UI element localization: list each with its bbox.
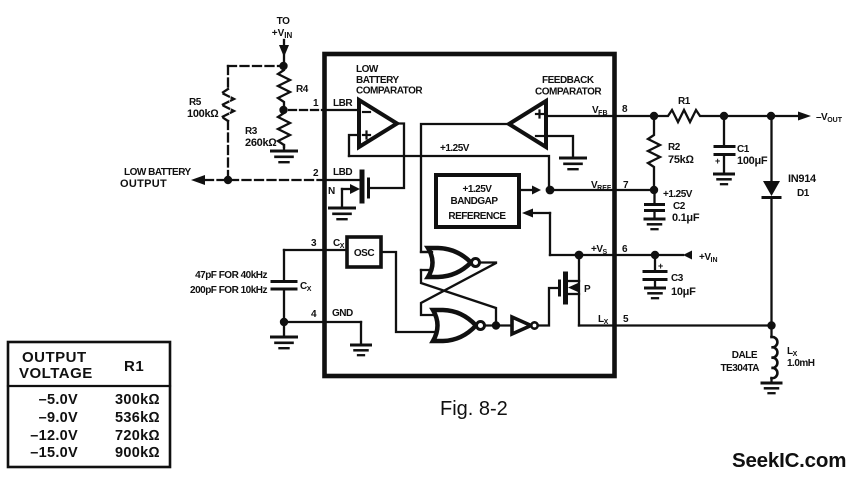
- svg-text:+VIN: +VIN: [272, 28, 293, 40]
- pin 4 label GND: [311, 308, 353, 320]
- svg-text:P: P: [584, 284, 591, 295]
- wire pin4 external and internal: [284, 321, 361, 323]
- svg-text:R1: R1: [124, 358, 144, 375]
- wire LX line from P-fet drain to inductor node: [579, 324, 772, 326]
- node latch output junction: [492, 321, 500, 329]
- wire pin2 to N-fet: [324, 179, 360, 181]
- inductor LX 1.0mH: [772, 326, 778, 384]
- label LX 1.0mH: [787, 346, 815, 369]
- wire VFB line from comparator to R1 node: [546, 115, 654, 117]
- svg-text:C3: C3: [671, 273, 684, 284]
- svg-text:BATTERY: BATTERY: [356, 75, 399, 86]
- svg-text:–5.0V: –5.0V: [39, 392, 78, 408]
- wire FB comparator minus input to ground: [546, 136, 573, 158]
- svg-text:COMPARATOR: COMPARATOR: [356, 86, 423, 97]
- node H junction (D1 top): [767, 112, 775, 120]
- capacitor CX external: [272, 250, 296, 322]
- label R2 75k: [668, 142, 694, 166]
- svg-text:+VIN: +VIN: [699, 252, 718, 264]
- svg-text:D1: D1: [797, 188, 810, 199]
- ground below C3: [646, 288, 665, 298]
- svg-text:8: 8: [622, 104, 628, 115]
- svg-text:SeekIC.com: SeekIC.com: [732, 449, 846, 472]
- svg-text:LOW BATTERY: LOW BATTERY: [124, 167, 192, 178]
- pin 7 label VREF: [591, 180, 629, 192]
- node A junction (+VIN / R4 / R5): [279, 62, 287, 70]
- svg-text:4: 4: [311, 309, 317, 320]
- svg-text:+1.25V: +1.25V: [440, 143, 470, 154]
- svg-text:+1.25V: +1.25V: [663, 189, 693, 200]
- label C1 100uF: [737, 144, 768, 167]
- internal ground of pin 4: [352, 322, 371, 355]
- ground below inductor: [762, 383, 781, 393]
- svg-text:LX: LX: [598, 314, 609, 326]
- svg-text:Fig. 8-2: Fig. 8-2: [440, 398, 508, 420]
- resistor R3: [278, 110, 290, 147]
- svg-text:COMPARATOR: COMPARATOR: [535, 87, 602, 98]
- pin 5 label LX: [598, 314, 629, 326]
- label R3 260k: [245, 126, 277, 149]
- capacitor C3: [644, 255, 666, 288]
- wire G1 output cross-couple to G2 top input: [421, 263, 496, 316]
- ground below C2: [645, 219, 664, 229]
- ground below CX: [272, 322, 297, 348]
- svg-text:LX: LX: [787, 346, 798, 358]
- wire bandgap output arrow to VREF node: [519, 186, 541, 195]
- oscillator box OSC: [347, 237, 381, 267]
- label +1.25V C2 0.1uF: [663, 189, 700, 224]
- svg-text:REFERENCE: REFERENCE: [448, 211, 506, 222]
- wire pin3 to OSC: [284, 249, 347, 251]
- label LOW BATTERY OUTPUT: [120, 167, 192, 190]
- node F junction (VREF / R2 / C2): [650, 186, 658, 194]
- wire pin1 to comparator minus input: [324, 109, 359, 111]
- label FEEDBACK COMPARATOR: [535, 75, 602, 98]
- capacitor C2: [646, 190, 664, 219]
- transistor Q2 P-channel switch: [560, 255, 580, 326]
- svg-text:R5: R5: [189, 97, 202, 108]
- svg-text:IN914: IN914: [788, 173, 817, 185]
- svg-text:100kΩ: 100kΩ: [187, 108, 219, 120]
- svg-text:0.1μF: 0.1μF: [672, 212, 700, 224]
- svg-text:DALE: DALE: [732, 350, 758, 361]
- svg-text:+: +: [658, 261, 663, 271]
- svg-text:CX: CX: [333, 238, 345, 250]
- wire inverter output up to P-fet gate: [538, 288, 558, 326]
- label TO +VIN: [272, 16, 293, 40]
- pin 6 label +VS: [591, 244, 628, 256]
- svg-text:VOLTAGE: VOLTAGE: [19, 365, 93, 382]
- svg-text:100μF: 100μF: [737, 155, 768, 167]
- node B junction (R4/R3/pin1): [279, 106, 287, 114]
- inverter G3: [512, 317, 538, 334]
- svg-text:R4: R4: [296, 84, 309, 95]
- svg-text:R1: R1: [678, 96, 691, 107]
- svg-text:CX: CX: [300, 281, 312, 293]
- svg-text:FEEDBACK: FEEDBACK: [542, 75, 595, 86]
- wire +VS line: [550, 254, 683, 256]
- +1.25V rail wire: [349, 156, 549, 190]
- svg-text:R3: R3: [245, 126, 258, 137]
- svg-text:LOW: LOW: [356, 64, 379, 75]
- NOR gate G2 (lower): [433, 310, 485, 341]
- svg-text:BANDGAP: BANDGAP: [450, 196, 498, 207]
- wire node B to pin 1 (dashed): [289, 109, 324, 111]
- node J junction (LX / D1 / inductor): [767, 321, 775, 329]
- +VIN input arrow: [683, 251, 692, 260]
- svg-text:536kΩ: 536kΩ: [115, 410, 160, 426]
- label C1 plus sign: [715, 156, 720, 166]
- ground of FB comparator minus input: [561, 158, 586, 169]
- svg-text:GND: GND: [332, 308, 353, 319]
- op-amp U1a low battery comparator: [359, 100, 397, 147]
- node G junction (C1 top): [720, 112, 728, 120]
- svg-text:C2: C2: [673, 201, 686, 212]
- svg-text:5: 5: [623, 314, 629, 325]
- svg-text:2: 2: [313, 168, 319, 179]
- ground of Q1 source: [330, 208, 355, 219]
- label IN914 D1: [788, 173, 817, 199]
- diode D1 IN914: [763, 116, 780, 326]
- svg-text:10μF: 10μF: [671, 286, 696, 298]
- label C3 10uF: [671, 273, 696, 298]
- svg-text:TO: TO: [277, 16, 290, 27]
- bandgap reference box: [436, 175, 519, 227]
- svg-text:200pF FOR 10kHz: 200pF FOR 10kHz: [190, 285, 267, 296]
- svg-text:–VOUT: –VOUT: [816, 112, 843, 124]
- svg-text:OUTPUT: OUTPUT: [22, 349, 87, 366]
- table of output voltage vs R1: [8, 342, 170, 467]
- svg-text:–15.0V: –15.0V: [30, 445, 78, 461]
- svg-text:OSC: OSC: [354, 248, 374, 259]
- svg-text:1.0mH: 1.0mH: [787, 358, 815, 369]
- svg-text:TE304TA: TE304TA: [720, 363, 759, 374]
- svg-text:C1: C1: [737, 144, 750, 155]
- pin 1 label LBR: [313, 98, 353, 109]
- svg-text:300kΩ: 300kΩ: [115, 392, 160, 408]
- svg-text:900kΩ: 900kΩ: [115, 445, 160, 461]
- wire +VS feed with arrow into bandgap: [522, 209, 550, 256]
- wire from TO +VIN down to node A with arrowhead: [279, 40, 289, 66]
- label LOW BATTERY COMPARATOR: [356, 64, 423, 97]
- svg-text:+1.25V: +1.25V: [463, 184, 493, 195]
- low battery output dashed wire with left arrow: [191, 175, 324, 185]
- node E junction (VFB / R2): [650, 112, 658, 120]
- wire G1 input stubs: [421, 251, 432, 253]
- pin 8 label VFB: [592, 104, 628, 117]
- svg-text:+: +: [715, 156, 720, 166]
- svg-text:OUTPUT: OUTPUT: [120, 178, 167, 190]
- svg-text:N: N: [328, 186, 335, 197]
- wire LBA output down to N-fet gate: [370, 124, 404, 189]
- node C junction (R5 / low battery output line): [224, 176, 232, 184]
- IC chip outline U1 (8-pin converter IC): [325, 54, 615, 376]
- ground below C1: [715, 174, 734, 184]
- wire FB comparator output down to latch set input: [421, 124, 509, 252]
- wire R1 to -VOUT arrow: [724, 112, 811, 121]
- op-amp U1b feedback comparator: [509, 101, 546, 147]
- ground below R3: [272, 145, 297, 162]
- resistor R1: [654, 110, 724, 122]
- resistor R2: [648, 116, 660, 190]
- pin 2 label LBD: [313, 167, 352, 179]
- pin 3 label CX: [311, 238, 345, 250]
- wire VREF line out to C2 node: [550, 189, 654, 191]
- transistor Q1 N-channel (LBD open drain): [342, 172, 369, 208]
- resistor R4: [278, 66, 290, 110]
- svg-text:–12.0V: –12.0V: [30, 428, 78, 444]
- node +VS internal junction at P-fet source: [575, 251, 584, 260]
- svg-text:3: 3: [311, 238, 317, 249]
- svg-text:LBD: LBD: [333, 167, 352, 178]
- label R5 100k: [187, 97, 219, 120]
- wire LBA plus input to +1.25V rail: [349, 135, 359, 156]
- wire G2 output to inverter: [485, 324, 513, 326]
- svg-text:LBR: LBR: [333, 98, 353, 109]
- svg-text:6: 6: [622, 244, 628, 255]
- svg-text:–9.0V: –9.0V: [39, 410, 78, 426]
- svg-text:47pF FOR 40kHz: 47pF FOR 40kHz: [195, 270, 267, 281]
- node D junction (CX bottom / pin4 ground): [280, 318, 288, 326]
- label 47pF / 200pF note: [190, 270, 267, 296]
- capacitor C1: [715, 116, 734, 174]
- svg-text:720kΩ: 720kΩ: [115, 428, 160, 444]
- NOR gate G1 (upper): [428, 248, 480, 277]
- svg-text:1: 1: [313, 98, 319, 109]
- resistor R5 (dashed branch): [222, 66, 279, 176]
- node I junction (+VS / C3 / +VIN): [651, 251, 659, 259]
- svg-text:75kΩ: 75kΩ: [668, 154, 694, 166]
- wire OSC output to latch reset input: [381, 252, 436, 332]
- svg-text:260kΩ: 260kΩ: [245, 137, 277, 149]
- label DALE TE304TA: [720, 350, 759, 374]
- svg-text:R2: R2: [668, 142, 681, 153]
- wire G2 output cross-couple to G1 bottom input: [421, 270, 496, 326]
- node VREF internal junction: [546, 186, 555, 195]
